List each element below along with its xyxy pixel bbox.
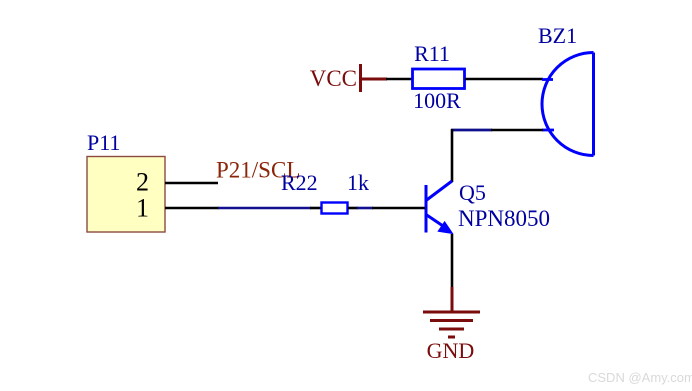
wire [218, 207, 311, 210]
resistor R11 [413, 41, 465, 113]
connector P11 [87, 130, 165, 232]
svg-text:R11: R11 [414, 41, 450, 66]
wire [491, 129, 543, 132]
svg-text:VCC: VCC [310, 66, 357, 91]
svg-text:1k: 1k [347, 170, 369, 195]
svg-text:100R: 100R [413, 88, 461, 113]
svg-text:Q5: Q5 [459, 180, 486, 205]
transistor Q5 [426, 180, 550, 234]
wire [451, 129, 454, 182]
svg-text:R22: R22 [281, 170, 318, 195]
wire [165, 182, 218, 185]
wire [465, 78, 543, 81]
wire [165, 207, 219, 210]
svg-text:BZ1: BZ1 [538, 23, 577, 48]
svg-text:P11: P11 [87, 130, 120, 155]
power port VCC [310, 64, 361, 92]
wire [372, 207, 425, 210]
svg-text:1: 1 [136, 194, 149, 223]
watermark [588, 370, 692, 385]
svg-text:GND: GND [427, 338, 475, 363]
wire [357, 207, 373, 210]
wire [310, 207, 322, 210]
wire [451, 129, 492, 132]
ground [423, 287, 480, 363]
resistor R22 [281, 170, 369, 214]
wire [348, 207, 358, 210]
svg-text:NPN8050: NPN8050 [458, 206, 550, 231]
wire [360, 78, 387, 81]
wire [451, 234, 454, 288]
buzzer BZ1 [538, 23, 594, 156]
wire [386, 78, 412, 81]
svg-text:2: 2 [136, 168, 149, 197]
